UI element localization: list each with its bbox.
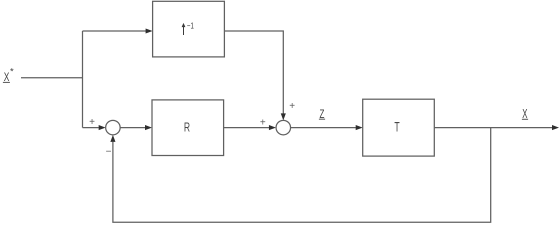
wire top feed into shift block: [83, 28, 153, 33]
wire into summing junction S1: [83, 125, 106, 130]
wire R to summing junction S2: [224, 125, 276, 130]
node label Z: [319, 107, 325, 121]
wire feedback from output node to S1: [110, 128, 490, 223]
summing junction S2: [276, 120, 291, 135]
wire S1 to block R: [120, 125, 152, 130]
svg-text:+: +: [260, 117, 266, 128]
summing junction S1: [106, 120, 121, 135]
block R: [152, 100, 224, 156]
output label X: [522, 106, 528, 121]
svg-text:+: +: [89, 117, 95, 128]
block T: [363, 99, 435, 156]
svg-text:T: T: [394, 120, 399, 135]
svg-text:−: −: [106, 147, 112, 158]
wire B1 output down into S2: [224, 31, 285, 120]
wire branch vertical from X* node: [82, 31, 84, 128]
svg-text:R: R: [184, 120, 190, 135]
svg-text:−1: −1: [187, 21, 194, 31]
symbol up-arrow^-1 in block B1: [182, 21, 195, 36]
svg-text:+: +: [289, 101, 295, 112]
block B1 shift operator: [153, 1, 225, 57]
svg-text:*: *: [10, 67, 14, 78]
wire T output to X: [434, 125, 559, 130]
wire input X* lead: [21, 77, 83, 79]
input label X*: [3, 67, 14, 85]
wire S2 to block T: [291, 125, 363, 130]
